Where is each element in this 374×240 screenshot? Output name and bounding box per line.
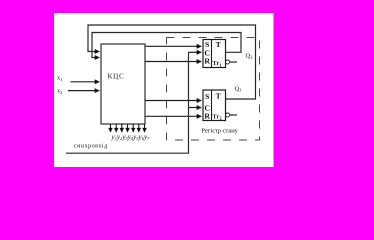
svg-text:y1y2y3y4y5y6y7: y1y2y3y4y5y6y7 xyxy=(111,133,151,141)
svg-text:R: R xyxy=(204,57,210,66)
svg-text:T: T xyxy=(216,40,221,49)
svg-text:КЦС: КЦС xyxy=(108,71,125,80)
svg-text:синхровхід: синхровхід xyxy=(74,144,108,150)
svg-text:Регістр стану: Регістр стану xyxy=(202,127,239,134)
svg-text:R: R xyxy=(204,112,210,121)
svg-text:S: S xyxy=(205,92,209,101)
svg-text:T: T xyxy=(216,92,221,101)
